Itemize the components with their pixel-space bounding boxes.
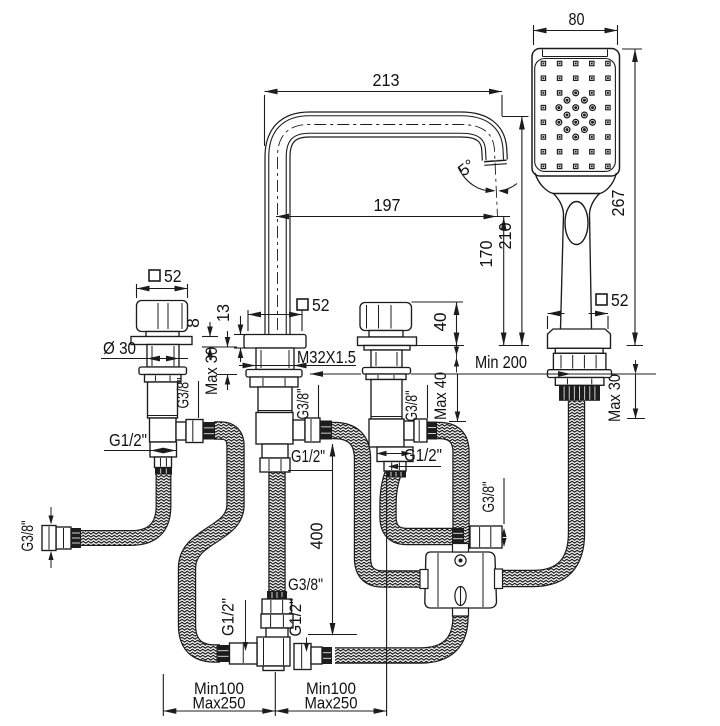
svg-text:197: 197 <box>374 195 401 215</box>
svg-text:G1/2": G1/2" <box>220 598 238 636</box>
svg-text:52: 52 <box>312 295 330 315</box>
svg-text:52: 52 <box>611 290 629 310</box>
svg-text:80: 80 <box>569 9 585 29</box>
svg-text:G3/8": G3/8" <box>403 390 421 421</box>
svg-text:G1/2": G1/2" <box>291 446 325 466</box>
svg-text:210: 210 <box>495 222 515 249</box>
svg-text:G3/8": G3/8" <box>288 576 323 594</box>
svg-text:Max 30: Max 30 <box>202 347 221 395</box>
svg-text:52: 52 <box>164 266 182 286</box>
svg-text:G1/2": G1/2" <box>404 445 442 465</box>
svg-text:213: 213 <box>373 70 400 90</box>
svg-text:400: 400 <box>307 522 327 549</box>
svg-text:Max 30: Max 30 <box>605 374 624 422</box>
svg-text:Min 200: Min 200 <box>475 352 527 372</box>
svg-text:40: 40 <box>430 312 450 331</box>
svg-text:G1/2": G1/2" <box>109 430 147 450</box>
svg-text:G3/8": G3/8" <box>19 520 37 551</box>
svg-text:G1/2": G1/2" <box>287 598 305 636</box>
svg-text:G3/8": G3/8" <box>175 377 193 408</box>
svg-text:Ø 30: Ø 30 <box>103 338 136 358</box>
svg-text:G3/8": G3/8" <box>295 388 313 419</box>
svg-text:13: 13 <box>213 304 233 322</box>
svg-text:G3/8": G3/8" <box>480 481 498 512</box>
svg-text:267: 267 <box>608 190 628 217</box>
svg-text:Max250: Max250 <box>305 694 358 713</box>
svg-text:Max250: Max250 <box>193 694 246 713</box>
svg-text:170: 170 <box>476 240 496 267</box>
svg-text:Max 40: Max 40 <box>431 372 450 420</box>
